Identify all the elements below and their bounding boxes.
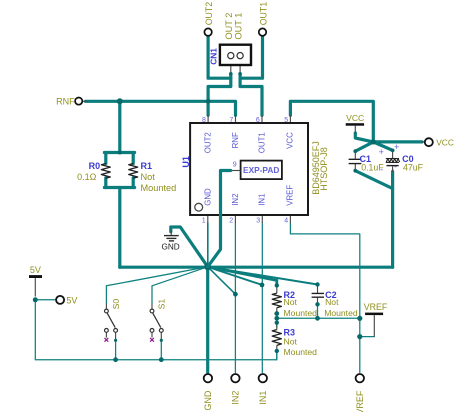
svg-text:OUT2: OUT2 [203,132,212,153]
svg-text:3: 3 [256,218,260,225]
svg-text:47uF: 47uF [403,163,424,173]
svg-text:C2: C2 [325,290,337,300]
svg-text:5: 5 [284,117,288,124]
svg-text:OUT 1: OUT 1 [233,13,243,40]
svg-text:Mounted: Mounted [284,347,318,357]
svg-text:VREF: VREF [355,390,365,412]
svg-text:RNF: RNF [231,132,240,148]
svg-text:5V: 5V [30,265,41,275]
svg-text:C0: C0 [402,154,414,164]
svg-text:R2: R2 [284,290,296,300]
svg-text:U1: U1 [181,156,191,168]
svg-text:VCC: VCC [346,113,364,123]
svg-text:+: + [394,142,399,152]
svg-text:R1: R1 [141,161,153,171]
svg-text:S1: S1 [156,299,166,310]
svg-text:HTSOP-J8: HTSOP-J8 [319,147,329,191]
svg-text:VREF: VREF [364,302,388,312]
svg-text:Mounted: Mounted [141,183,177,193]
svg-text:-: - [394,161,397,171]
svg-text:RNF: RNF [56,97,75,107]
svg-text:4: 4 [284,218,288,225]
svg-text:1: 1 [202,218,206,225]
svg-text:R0: R0 [89,161,101,171]
svg-text:6: 6 [256,117,260,124]
svg-text:EXP-PAD: EXP-PAD [243,165,279,175]
svg-text:VCC: VCC [436,138,454,148]
svg-text:CN1: CN1 [208,48,218,65]
svg-text:IN1: IN1 [258,194,267,206]
svg-text:GND: GND [203,390,213,411]
svg-text:5V: 5V [66,296,77,306]
svg-text:C1: C1 [360,154,372,164]
svg-text:IN1: IN1 [258,391,268,405]
svg-text:Mounted: Mounted [284,308,318,318]
svg-text:+: + [379,147,384,157]
svg-text:IN2: IN2 [231,391,241,405]
svg-text:R3: R3 [284,328,296,338]
svg-text:7: 7 [229,117,233,124]
svg-text:Not: Not [141,172,156,182]
svg-text:OUT 2: OUT 2 [224,13,234,40]
svg-text:VREF: VREF [286,185,295,206]
svg-text:-: - [380,164,383,174]
svg-text:GND: GND [161,242,179,251]
svg-text:S0: S0 [111,299,121,310]
svg-text:OUT2: OUT2 [204,2,214,26]
svg-text:IN2: IN2 [231,194,240,206]
svg-text:VCC: VCC [286,132,295,149]
svg-text:0.1Ω: 0.1Ω [77,172,97,182]
svg-text:Mounted: Mounted [324,308,358,318]
svg-text:Not: Not [284,336,298,346]
svg-text:9: 9 [233,162,237,169]
svg-text:GND: GND [203,188,212,206]
svg-text:OUT1: OUT1 [259,2,269,26]
svg-text:8: 8 [202,117,206,124]
svg-text:2: 2 [229,218,233,225]
svg-text:OUT1: OUT1 [258,132,267,153]
